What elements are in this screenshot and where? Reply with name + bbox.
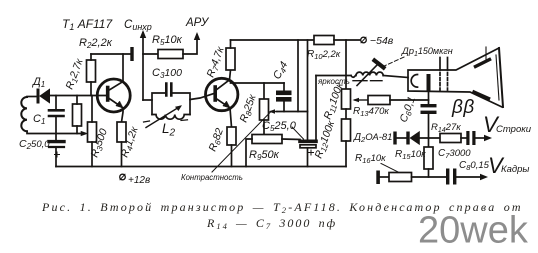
wire junction to R15	[428, 138, 430, 147]
wire R16 to C8	[412, 176, 447, 178]
supply rail -54v	[231, 39, 315, 41]
capacitor C4 plates	[276, 91, 292, 96]
wire R1 bottom	[76, 126, 78, 134]
svg-text:C3100: C3100	[152, 67, 182, 80]
svg-text:ββ: ββ	[451, 97, 475, 118]
svg-text:R950к: R950к	[249, 149, 280, 162]
resistor R11 body	[342, 89, 351, 109]
resistor R4 body	[117, 122, 126, 142]
svg-text:R1427к: R1427к	[431, 122, 461, 134]
resistor R9 body	[252, 135, 282, 144]
inductor L2 bumps	[152, 115, 190, 120]
resistor R14 body	[440, 134, 461, 143]
L2 side dashes	[144, 120, 188, 122]
resistor R10 body	[314, 36, 334, 45]
coil L1 input	[21, 97, 27, 131]
wire coil-bottom row to R3 wiper	[27, 131, 84, 133]
R8 wiper arrow	[271, 111, 277, 113]
svg-text:Контрастность: Контрастность	[181, 173, 243, 182]
svg-text:+12в: +12в	[128, 175, 150, 186]
T2 collector stroke	[216, 80, 230, 90]
CRT deflection bar top	[476, 60, 490, 67]
plus mark C5	[309, 150, 314, 155]
wire T1 collector up	[122, 54, 124, 82]
collector coupling row y54	[91, 53, 130, 55]
wire R2 bottom	[90, 82, 92, 96]
resistor R15 body	[424, 147, 433, 169]
diode D1 cathode bar	[37, 90, 40, 102]
wire R6 bottom to rail	[231, 145, 233, 167]
transistor T2 circle	[206, 78, 238, 110]
svg-text:R510к: R510к	[152, 34, 183, 47]
brightness node line to cathode	[316, 75, 351, 77]
capacitor C5 electrolytic plates	[300, 140, 316, 144]
wire R3 bottom to rail	[91, 142, 93, 167]
resistor R13 body	[368, 96, 390, 105]
wire terminal to R16	[380, 176, 389, 178]
wire diode to junction	[420, 137, 441, 139]
svg-text:C525,0: C525,0	[262, 120, 297, 133]
wire R8 bottom to R9	[263, 120, 265, 135]
wire drop to R8 top	[263, 83, 265, 99]
wire R11 to R12	[345, 109, 347, 119]
wire R4 bottom	[121, 142, 123, 167]
wire C2 to ground rail	[55, 147, 57, 167]
svg-text:C250,0: C250,0	[19, 138, 50, 151]
collector video row y83	[231, 82, 285, 84]
wire tank to T2 base	[190, 94, 214, 100]
svg-text:R102,2к: R102,2к	[307, 49, 341, 61]
wire R5 to ARU	[183, 35, 197, 54]
wiper arrow into R3	[81, 131, 88, 135]
wire R7 top to supply rail	[230, 40, 232, 48]
svg-text:R22,2к: R22,2к	[79, 37, 113, 50]
T2 emitter stroke with arrow	[216, 99, 230, 109]
wire R9 left lead to rail	[246, 139, 252, 167]
choke adjust arrow	[357, 64, 378, 86]
T1 collector stroke	[109, 82, 124, 91]
brightness box left edge	[315, 76, 317, 140]
ARU arrowhead	[194, 32, 200, 40]
capacitor C8	[446, 169, 449, 185]
terminal -54v circle	[361, 37, 367, 43]
diode D2 cathode bar	[406, 132, 409, 145]
wire coil-top to diode	[27, 96, 36, 98]
CRT g3 lead	[447, 58, 449, 71]
pointer kontrastnost to R8 wiper	[212, 112, 271, 173]
capacitor C7	[466, 131, 469, 145]
choke Dr1 coil	[356, 72, 383, 75]
arrowhead stroki	[484, 135, 492, 141]
resistor R8 body (contrast pot)	[260, 99, 269, 120]
wire terminal to diode	[397, 137, 407, 139]
svg-text:R1510к: R1510к	[395, 149, 426, 161]
wire R3 top	[91, 96, 93, 123]
terminal bar diode row	[393, 132, 396, 145]
L2 adjust arrow	[146, 107, 180, 128]
CRT neck outline	[408, 48, 502, 107]
wire R14 to C7	[461, 137, 466, 139]
capacitor C3 plates	[166, 84, 171, 96]
T2 base bar	[213, 87, 217, 100]
wire T2 emitter down to R6	[230, 108, 232, 127]
wire R15 bottom	[428, 169, 430, 177]
svg-text:R13470к: R13470к	[353, 106, 389, 118]
resistor R7 body	[226, 48, 235, 70]
coupling cap plate	[130, 47, 133, 61]
capacitor C1	[49, 110, 64, 116]
CRT g2 lead	[439, 58, 441, 71]
choke core dashes	[353, 80, 382, 82]
svg-text:Д2ОА-81: Д2ОА-81	[353, 132, 392, 144]
capacitor C6 plates	[421, 104, 437, 107]
vertical from rail to C5	[307, 40, 309, 140]
wire sync to tank	[143, 99, 152, 101]
sync line vertical	[142, 33, 144, 100]
sync arrowhead	[140, 30, 146, 38]
wire choke to CRT cathode	[383, 76, 408, 78]
resistor R2 body	[87, 60, 96, 82]
wire C4 drop	[283, 83, 285, 91]
CRT deflection bar bottom	[474, 92, 489, 99]
svg-text:АРУ: АРУ	[185, 17, 210, 29]
resistor R16 body	[389, 173, 412, 182]
resistor R12 body	[342, 119, 351, 141]
CRT grid bar	[427, 74, 431, 91]
CRT screen inner line	[496, 55, 499, 100]
resistor R6 body	[227, 127, 236, 145]
transistor T1 circle	[97, 79, 130, 112]
wire base row	[49, 95, 107, 97]
ground rail	[56, 166, 346, 168]
resistor R3 body (pot)	[88, 122, 97, 142]
terminal bar R16 row	[376, 171, 380, 185]
vertical rail drop to R11	[345, 40, 347, 89]
T1 base bar	[106, 88, 110, 101]
pointer R16 label	[381, 164, 398, 173]
resistor R1 body	[73, 104, 82, 126]
wire C1 to junction	[55, 116, 57, 140]
diode D2 triangle	[410, 132, 420, 145]
pointer dashed Dr1	[382, 57, 404, 67]
wire C7 to stroki arrow	[476, 137, 487, 139]
terminal +12v circle	[120, 174, 126, 180]
choke Dr1 wiggle lead	[351, 76, 356, 78]
svg-text:C73000: C73000	[438, 148, 471, 160]
wire R13 to grid node	[390, 99, 429, 101]
plus mark C2	[55, 152, 60, 157]
R11 wiper arrow	[355, 99, 368, 101]
svg-text:Кадры: Кадры	[501, 164, 529, 175]
wire grid down	[428, 91, 430, 105]
choke arrow mallet head	[375, 61, 384, 68]
svg-text:−54в: −54в	[370, 35, 394, 47]
svg-text:Строки: Строки	[496, 124, 532, 135]
vertical from rail to video row	[297, 40, 299, 112]
pointer C5 label	[292, 127, 304, 139]
diode D1	[40, 89, 50, 102]
wire C4 bottom to video row	[283, 101, 285, 111]
wire T1 emitter down to R4	[122, 108, 124, 122]
wire C1 drop	[55, 96, 57, 110]
svg-text:C80,15: C80,15	[459, 160, 490, 172]
CRT anode lead	[485, 47, 487, 59]
CRT screen face	[499, 48, 503, 107]
resistor R5 body	[158, 50, 183, 59]
wire C5 bottom to rail	[307, 148, 309, 167]
CRT cathode arc	[411, 74, 417, 87]
arrowhead kadry	[480, 174, 488, 180]
tank circuit outline	[152, 93, 190, 115]
wire T2 collector up to R7	[230, 70, 231, 80]
wire R1 top	[76, 96, 78, 105]
wire to R5	[143, 53, 158, 55]
T1 emitter stroke with arrow	[109, 98, 124, 108]
wire R10 to terminal	[334, 39, 360, 41]
svg-text:20wek: 20wek	[418, 210, 529, 252]
wire R2 top to collector row	[90, 54, 92, 60]
wire R9 right to C5	[282, 138, 300, 141]
wire C8 to kadry arrow	[456, 176, 482, 178]
wire C6 to diode row	[428, 114, 430, 138]
video row y111	[277, 111, 308, 113]
capacitor C2 electrolytic	[49, 140, 64, 143]
wire R12 bottom to rail	[345, 141, 347, 167]
